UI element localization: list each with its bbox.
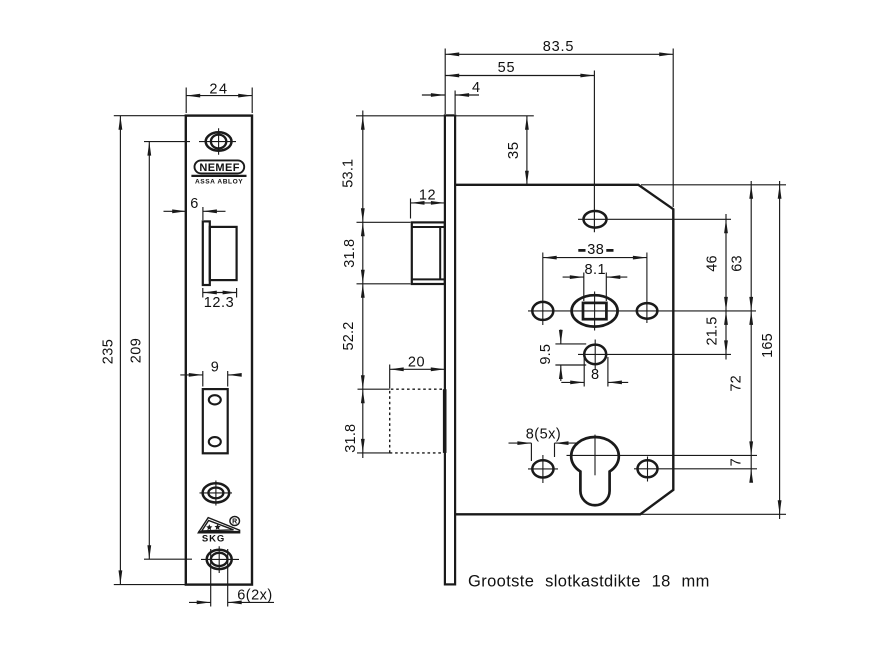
- dimension 83.5 extension lines: [445, 49, 673, 208]
- svg-text:55: 55: [498, 60, 516, 76]
- top screw hole crosshair: [199, 128, 236, 155]
- cylinder right hole: [638, 460, 658, 477]
- dimension 209 line: [148, 142, 150, 560]
- cylinder right hole crosshair: [634, 457, 757, 482]
- latch flange inner lines: [412, 227, 445, 279]
- SKG logo outline: [198, 518, 239, 533]
- top hole: [584, 211, 607, 228]
- dimension 6(2x) extension lines: [211, 549, 228, 607]
- middle screw hole: [203, 483, 230, 502]
- dimension 35 line: [526, 116, 528, 185]
- cylinder left hole: [532, 460, 553, 477]
- top/bottom extension lines for 63 & 165: [640, 185, 786, 515]
- euro cylinder hole: [571, 437, 619, 505]
- deadbolt dashed box: [390, 389, 444, 453]
- dimension 9.5 extensions: [555, 344, 586, 365]
- dimension 235 arrows: [119, 116, 123, 585]
- dimension 165 arrows: [778, 185, 782, 515]
- dimension 8 arrows: [570, 381, 622, 385]
- svg-text:20: 20: [408, 354, 425, 370]
- cylinder left hole crosshair: [528, 455, 558, 483]
- SKG registered mark: [230, 517, 240, 526]
- dimension 12.3 extension lines: [203, 288, 237, 298]
- svg-text:53.1: 53.1: [340, 159, 356, 188]
- NEMEF logo: [195, 160, 245, 173]
- follower hole: [572, 295, 618, 326]
- dimension 6(2x) arrows: [197, 601, 242, 605]
- deadbolt face bar: [443, 389, 447, 453]
- SKG base bar: [198, 531, 239, 534]
- dimension 35 extension: [456, 115, 534, 117]
- dimension 20 line: [390, 368, 445, 370]
- faceplate outline: [186, 116, 252, 585]
- faceplate strip (side): [445, 115, 455, 584]
- dimension 12.3 arrows: [203, 291, 237, 295]
- svg-text:8(5x): 8(5x): [526, 426, 562, 442]
- euro cylinder crosshairs: [594, 435, 596, 476]
- left chained dimension line 53.1/31.8/52.2/31.8: [362, 111, 364, 459]
- dimension 9.5 arrows: [559, 330, 563, 379]
- dimension 6 tick: [202, 207, 204, 220]
- dimension 83.5 line: [445, 53, 673, 55]
- svg-text:NEMEF: NEMEF: [199, 162, 240, 174]
- lock case outline: [455, 185, 673, 515]
- dimension 9 extension lines: [203, 371, 228, 387]
- svg-text:SKG: SKG: [202, 534, 225, 545]
- lower small hole: [584, 345, 606, 365]
- dimension 35 arrows: [525, 116, 529, 185]
- dimension 8.1 line and arrows: [563, 276, 628, 278]
- dimension 235 line: [119, 116, 121, 585]
- follower square: [583, 303, 606, 319]
- svg-text:24: 24: [209, 82, 228, 98]
- dimension 20 extension: [389, 365, 391, 389]
- svg-text:6: 6: [190, 196, 198, 212]
- screw plate cutout: [203, 389, 228, 453]
- dimension 9 line and arrows: [180, 374, 239, 376]
- chained dimension extension lines: [356, 116, 445, 453]
- right chained dimension 46/21.5 line: [725, 214, 727, 360]
- NEMEF underline: [191, 175, 246, 177]
- latch body (front): [210, 227, 237, 280]
- dimension 4 line and arrows: [422, 94, 479, 96]
- cutout hole lower: [209, 437, 221, 446]
- dimension 12 arrows: [411, 201, 445, 205]
- svg-text:38: 38: [587, 242, 604, 258]
- svg-text:52.2: 52.2: [341, 321, 357, 350]
- dimension 24 line: [186, 95, 252, 97]
- dimension 209 arrows: [147, 142, 151, 560]
- dimension 8 line: [561, 381, 628, 383]
- svg-text:8: 8: [591, 367, 599, 383]
- dimension 4 extension: [454, 91, 456, 115]
- dimension 20 arrows: [390, 367, 445, 371]
- chained dimension arrows: [361, 116, 365, 453]
- dimension 12 line: [411, 202, 445, 204]
- lower hole crosshairs: [578, 340, 731, 370]
- svg-text:7: 7: [729, 458, 745, 466]
- dimension 235 extension lines: [114, 116, 186, 585]
- svg-text:8.1: 8.1: [584, 262, 606, 278]
- svg-text:31.8: 31.8: [343, 424, 359, 453]
- right chained dimension 63/72/7 line: [750, 181, 752, 480]
- svg-text:35: 35: [505, 141, 522, 159]
- svg-text:R: R: [232, 519, 237, 526]
- svg-text:209: 209: [129, 338, 145, 363]
- svg-text:83.5: 83.5: [543, 39, 574, 55]
- svg-text:63: 63: [730, 255, 746, 272]
- bottom screw hole crosshair: [201, 546, 239, 573]
- svg-text:72: 72: [729, 375, 745, 392]
- follower left hole: [532, 302, 553, 320]
- latch (side) outline: [412, 222, 445, 284]
- dimension 12 extension: [410, 199, 412, 219]
- svg-text:6(2x): 6(2x): [237, 588, 273, 604]
- dimension 8(5x) extensions: [531, 443, 554, 461]
- dimension 12.3 line: [203, 292, 237, 294]
- svg-text:ASSA ABLOY: ASSA ABLOY: [195, 179, 243, 186]
- 63/72/7 arrows: [749, 185, 753, 483]
- dimension 24 arrows: [186, 94, 252, 98]
- dimension 209 extension lines: [144, 142, 192, 560]
- dimension 6 line and arrows: [164, 210, 226, 212]
- follower right hole: [637, 303, 658, 319]
- follower crosshair vertical: [594, 292, 596, 331]
- bottom screw hole: [207, 550, 232, 569]
- svg-text:235: 235: [101, 339, 117, 364]
- dimension 8(5x) arrows: [517, 441, 568, 445]
- top screw hole: [206, 132, 232, 150]
- svg-text:31.8: 31.8: [342, 239, 358, 268]
- dimension 165 line: [779, 181, 781, 519]
- dimension 24 extension lines: [186, 88, 252, 114]
- dimension 8(5x) line: [509, 442, 578, 444]
- svg-text:12: 12: [419, 188, 436, 204]
- svg-text:4: 4: [472, 80, 480, 96]
- follower centerline horizontal: [528, 310, 756, 312]
- latch flange (front): [203, 221, 210, 285]
- top hole crosshair: [578, 218, 731, 220]
- dimension 55 arrows: [445, 74, 594, 78]
- svg-text:165: 165: [760, 333, 776, 358]
- dimension 83.5 arrows: [445, 52, 673, 56]
- dimension 55 line: [445, 75, 594, 77]
- svg-text:46: 46: [705, 255, 721, 272]
- dimension 55 extension line: [593, 71, 595, 233]
- dimension =38= arrows: [543, 256, 647, 260]
- 38 extension / side hole crosshairs vertical: [543, 253, 647, 326]
- dimension 9.5 line: [560, 330, 562, 382]
- dimension 6(2x) line: [189, 601, 274, 603]
- svg-text:9.5: 9.5: [538, 344, 554, 365]
- svg-text:9: 9: [211, 359, 219, 375]
- 46/21.5 arrows: [724, 219, 728, 354]
- dimension 8.1 extensions: [584, 273, 607, 302]
- svg-text:12.3: 12.3: [204, 295, 235, 311]
- svg-text:21.5: 21.5: [705, 316, 721, 345]
- dimension =38= line: [543, 257, 647, 259]
- middle screw hole crosshair: [200, 481, 233, 506]
- cutout hole upper: [209, 395, 221, 404]
- SKG stars: [206, 524, 212, 530]
- dimension 8 extensions: [584, 357, 608, 387]
- svg-text:Grootste slotkastdikte 18 mm: Grootste slotkastdikte 18 mm: [468, 573, 710, 591]
